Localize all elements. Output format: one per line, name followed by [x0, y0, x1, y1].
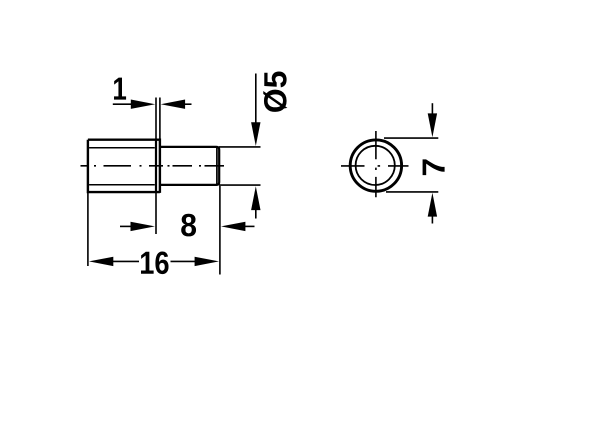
- dim 1 arrow left: [131, 100, 155, 109]
- dim 16 line left segment: [112, 260, 140, 262]
- collar boundary line: [155, 140, 157, 193]
- dim text 1: [114, 78, 126, 100]
- dim 8 extension line left: [155, 192, 157, 234]
- dim 7 arrow bottom tail: [431, 215, 433, 224]
- dim Ø5 arrow down: [251, 122, 260, 146]
- dim text 8: [181, 214, 196, 237]
- end view inner circle: [356, 146, 395, 185]
- centerline side view: [81, 165, 225, 167]
- dim 1 arrow right: [161, 100, 185, 109]
- dim Ø5 leader line: [255, 74, 257, 125]
- end view outer circle: [350, 140, 401, 191]
- dim Ø5 arrow up: [251, 186, 260, 210]
- dim 16 line right segment: [171, 260, 197, 262]
- end view vertical centerline: [375, 131, 377, 197]
- dim 7 extension line top: [384, 137, 438, 139]
- dim 1 extension line left: [155, 98, 157, 140]
- dim 16 extension line left: [87, 193, 89, 267]
- dim 8 right arrow tail: [244, 225, 255, 227]
- dim text 7: [423, 159, 445, 175]
- pin top extension line: [219, 146, 261, 148]
- pin end chamfer line: [216, 148, 218, 185]
- body chamfer line bottom: [89, 184, 155, 186]
- dim 7 arrow top: [428, 113, 437, 137]
- pin shaft (side view small cylinder): [160, 147, 219, 185]
- dim 8 left arrow tail: [120, 225, 132, 227]
- dim 1 extension line right: [159, 98, 161, 140]
- dim 7 arrow top tail: [431, 103, 433, 116]
- dim 1 line right segment: [183, 103, 192, 105]
- end view horizontal centerline: [341, 165, 409, 167]
- dim 16 arrow right: [195, 257, 219, 266]
- dim 1 line left segment: [113, 103, 133, 105]
- dim 7 extension line bottom: [386, 191, 438, 193]
- dim 7 arrow bottom: [428, 193, 437, 217]
- dim 16 arrow left: [89, 257, 113, 266]
- dim Ø5 arrow tail: [255, 209, 257, 219]
- body chamfer line top: [89, 147, 155, 149]
- pin bottom extension line: [219, 184, 261, 186]
- dim 8 arrow left: [131, 222, 155, 231]
- dim 8 arrow right: [221, 222, 245, 231]
- dim 8 extension line right: [219, 186, 221, 275]
- pin body (side view large cylinder): [88, 140, 160, 193]
- dim text Ø5: [263, 71, 287, 111]
- dim text 16: [141, 251, 169, 274]
